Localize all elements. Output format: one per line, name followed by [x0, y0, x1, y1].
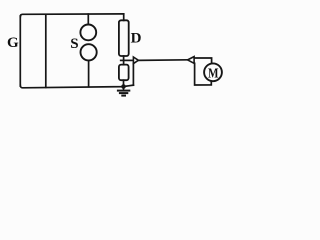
wire between D and lower resistor: [123, 56, 125, 65]
svg-text:G: G: [7, 35, 19, 51]
resistor D body: [119, 20, 129, 56]
svg-text:M: M: [208, 66, 219, 81]
wire lower resistor to junction: [123, 80, 125, 86]
lamp S1: [80, 25, 96, 41]
generator G right edge wire: [45, 14, 47, 87]
wire lamp branch top: [87, 14, 89, 24]
lamp S2: [81, 44, 97, 60]
wire lamp branch bottom: [88, 61, 90, 87]
wiper arrow (points right): [133, 57, 138, 64]
wire wiper to motor plug: [139, 59, 188, 62]
wire top lead of D: [123, 14, 125, 21]
wire bottom horizontal: [20, 85, 133, 88]
wire motor loop left and bottom: [195, 63, 212, 85]
generator G left edge wire: [19, 16, 21, 86]
wire motor loop top: [194, 58, 211, 64]
wire bypass right side down: [132, 63, 134, 85]
wire top horizontal: [20, 14, 123, 17]
motor plug arrow (points left): [188, 57, 195, 64]
wire tap stub to wiper arrow: [121, 59, 134, 61]
svg-text:S: S: [70, 36, 78, 52]
svg-text:D: D: [131, 31, 142, 47]
ground: [117, 87, 130, 96]
junction dot: [121, 84, 126, 89]
lower resistor body: [119, 65, 129, 81]
motor M circle: [204, 63, 222, 81]
